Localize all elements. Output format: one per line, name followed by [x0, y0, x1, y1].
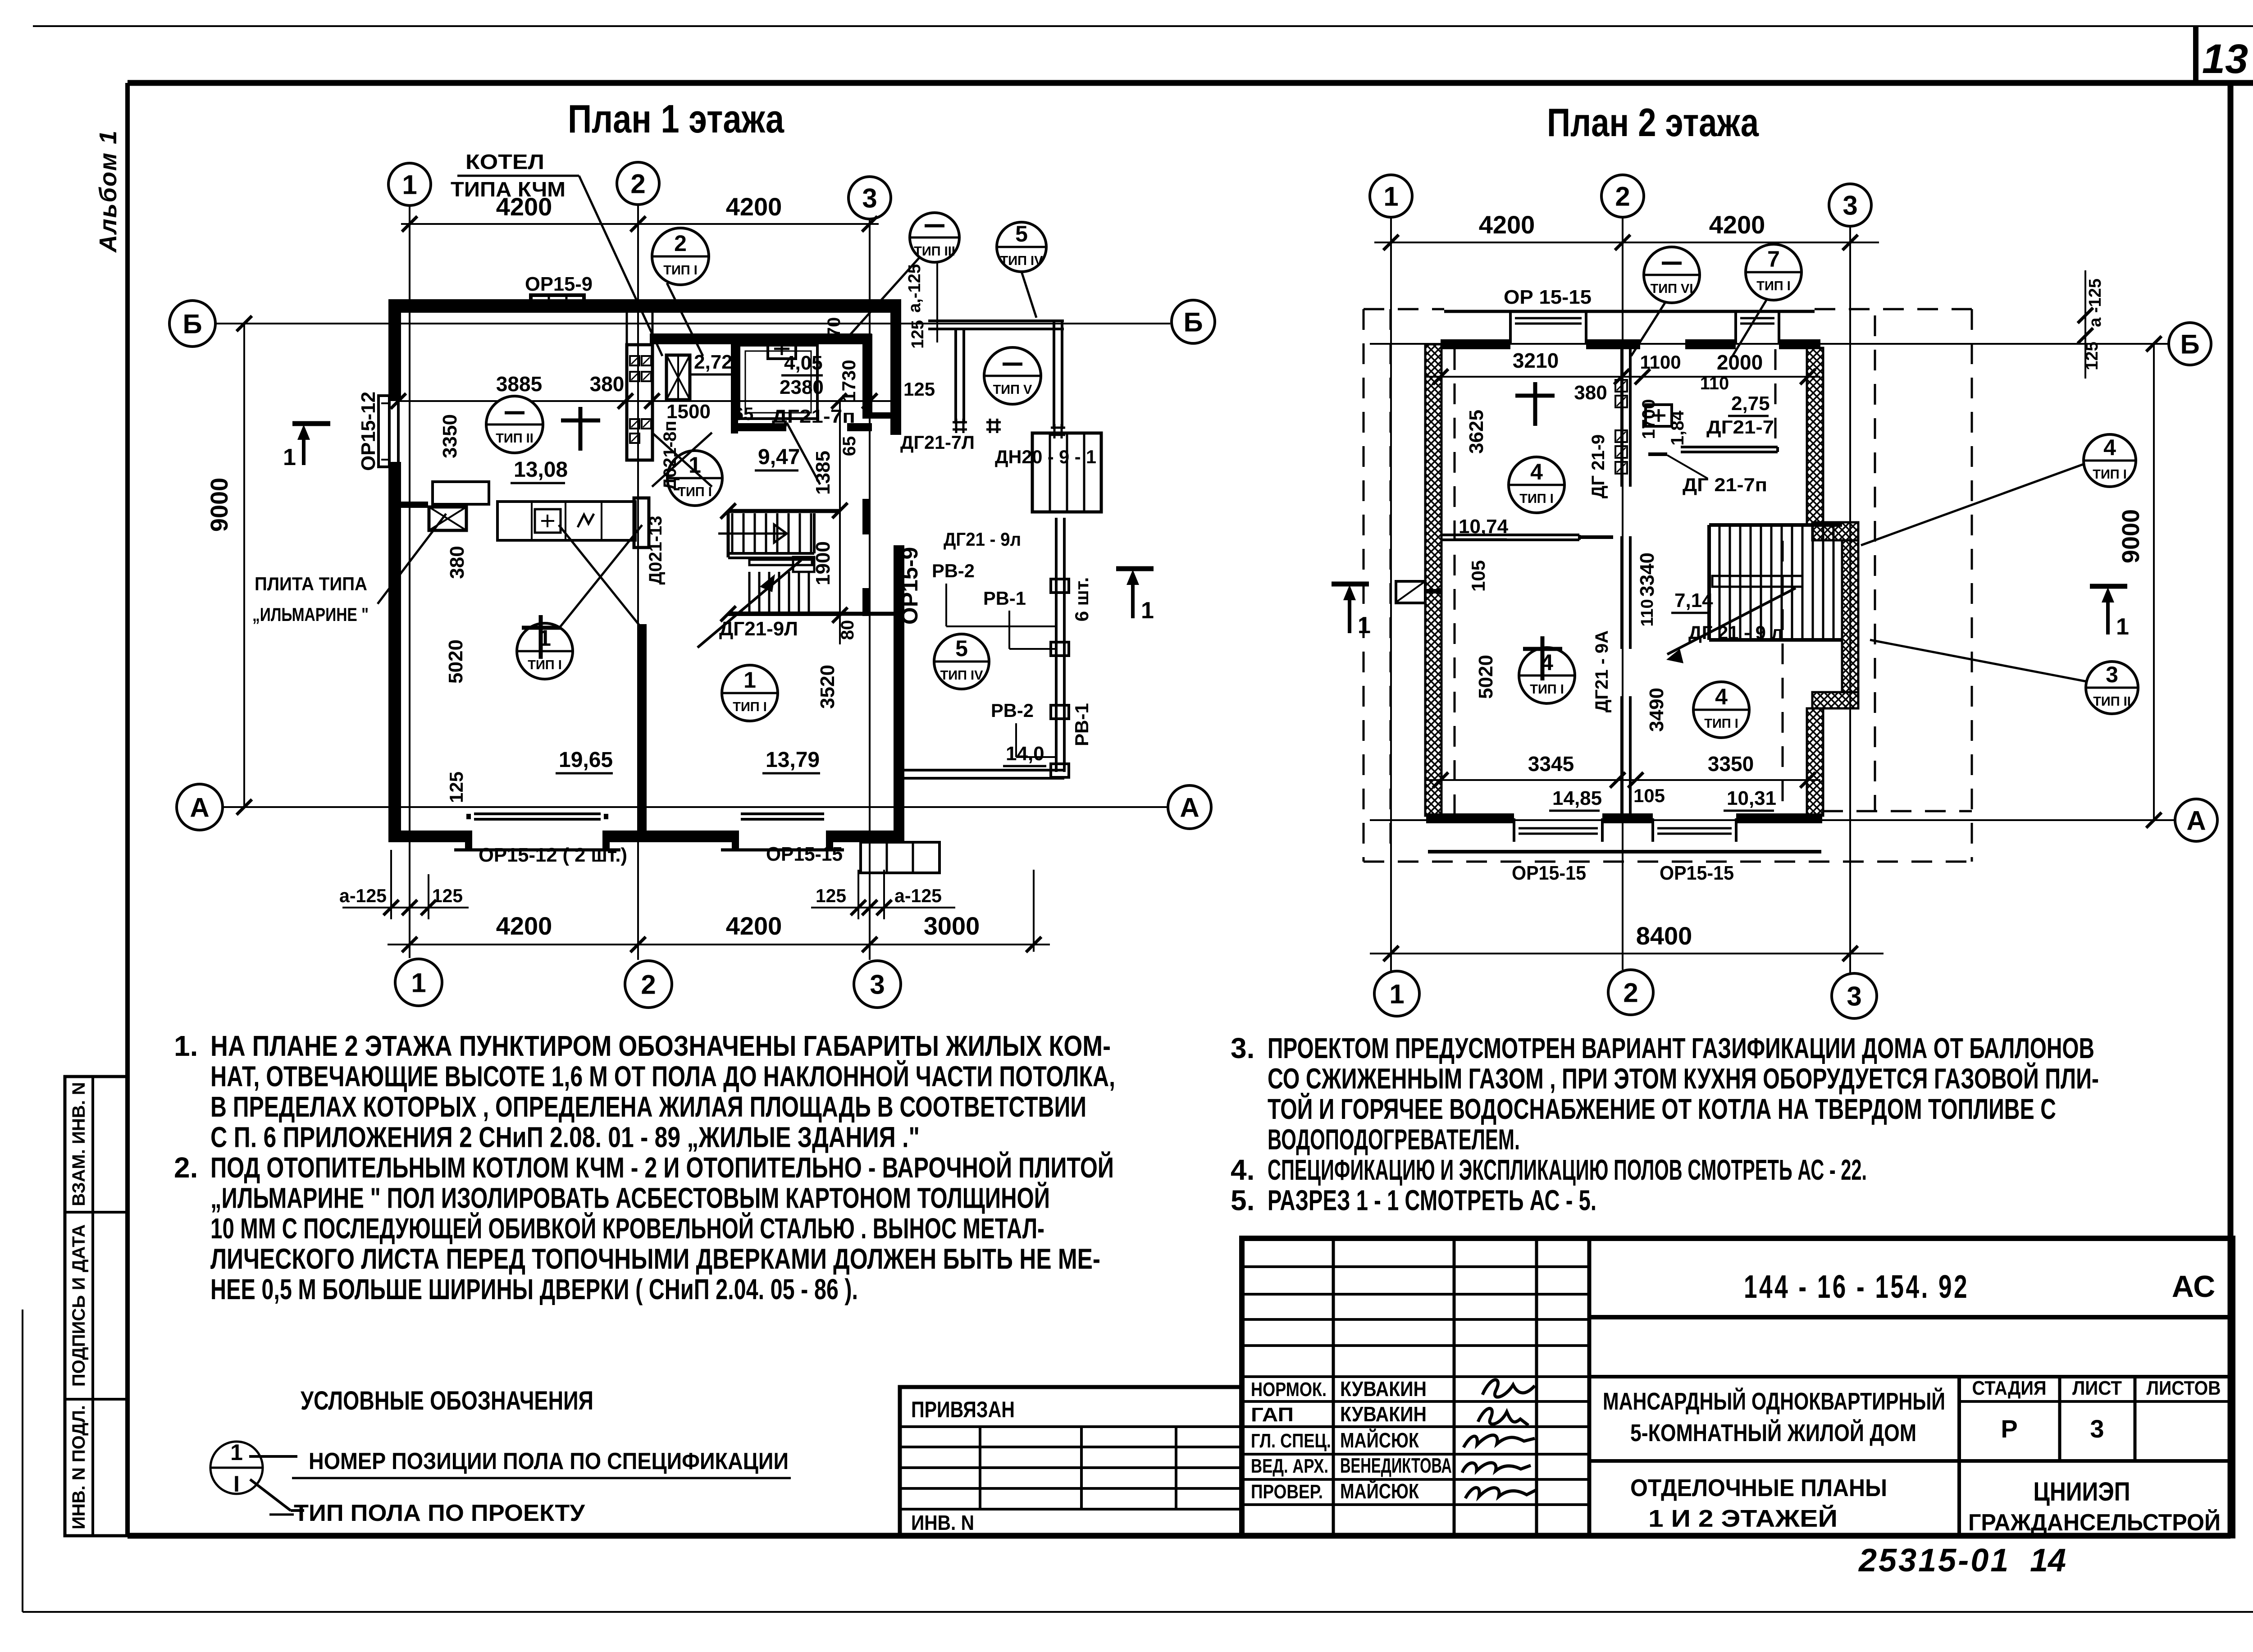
svg-text:5.: 5. — [1231, 1184, 1254, 1217]
svg-text:ДГ 21-7п: ДГ 21-7п — [1683, 474, 1767, 495]
svg-text:ДГ 21-9: ДГ 21-9 — [1588, 434, 1608, 498]
svg-text:ДГ21-7: ДГ21-7 — [1706, 416, 1774, 438]
stove box — [535, 509, 561, 533]
svg-text:65: 65 — [734, 404, 754, 424]
bathroom west wall — [731, 334, 738, 434]
porch left double — [954, 329, 957, 424]
plan1 interior dim line — [398, 400, 896, 402]
svg-text:„ИЛЬМАРИНЕ " ПОЛ ИЗОЛИРОВАТЬ: „ИЛЬМАРИНЕ " ПОЛ ИЗОЛИРОВАТЬ АСБЕСТОВЫМ … — [210, 1182, 1050, 1214]
sheet edge top — [33, 25, 2253, 27]
svg-text:3345: 3345 — [1528, 752, 1574, 776]
svg-text:СПЕЦИФИКАЦИЮ И ЭКСПЛИКАЦИЮ: СПЕЦИФИКАЦИЮ И ЭКСПЛИКАЦИЮ ПОЛОВ СМОТРЕТ… — [1268, 1154, 1867, 1186]
plan1 right wall lower — [894, 545, 904, 842]
svg-text:1: 1 — [1141, 598, 1154, 624]
veranda posts — [1051, 579, 1069, 593]
svg-text:3885: 3885 — [496, 372, 542, 396]
flue vent squares — [630, 356, 639, 365]
plan2 dashed outline left — [1363, 309, 1365, 862]
room 2 type circle — [722, 665, 778, 721]
svg-text:25315-01: 25315-01 — [1858, 1542, 2010, 1579]
svg-text:НОРМОК.: НОРМОК. — [1251, 1378, 1327, 1401]
svg-text:2: 2 — [1615, 182, 1630, 212]
svg-text:125: 125 — [903, 379, 935, 400]
svg-text:РВ-1: РВ-1 — [983, 588, 1026, 609]
bathroom door swing — [787, 423, 820, 484]
veranda type circle 5 — [934, 634, 989, 689]
svg-text:ДГ21-7п: ДГ21-7п — [772, 406, 855, 427]
page number box — [2193, 26, 2198, 83]
svg-text:а-125: а-125 — [339, 885, 387, 906]
svg-text:ГАП: ГАП — [1251, 1404, 1294, 1426]
left wall window OR15-12 — [388, 401, 391, 462]
plan2 right hatched wall lower — [1807, 708, 1823, 816]
flue partition wall — [627, 345, 652, 460]
plan1 entrance steps — [861, 842, 940, 873]
plan1 top exterior wall — [389, 299, 896, 313]
porch right double — [1053, 321, 1055, 429]
section mark 1 right — [1116, 566, 1154, 571]
svg-text:ТИП I: ТИП I — [1756, 279, 1791, 293]
veranda right double wall — [1055, 518, 1058, 772]
plan2 right vert dim 9000 — [2153, 344, 2155, 820]
svg-text:ОР15-15: ОР15-15 — [766, 843, 843, 865]
svg-text:3: 3 — [862, 183, 877, 214]
top window bay 1 — [1509, 311, 1512, 344]
svg-text:Б: Б — [182, 309, 202, 339]
svg-text:ДГ21 - 9л: ДГ21 - 9л — [944, 529, 1021, 550]
svg-text:3350: 3350 — [439, 414, 461, 458]
svg-text:ДГ21-9Л: ДГ21-9Л — [719, 618, 798, 640]
svg-text:13,79: 13,79 — [766, 748, 820, 772]
hall type circle — [667, 451, 722, 506]
svg-text:ВОДОПОДОГРЕВАТЕЛЕМ.: ВОДОПОДОГРЕВАТЕЛЕМ. — [1268, 1123, 1520, 1156]
svg-text:МАЙСЮК: МАЙСЮК — [1340, 1479, 1419, 1503]
svg-text:ТИП I: ТИП I — [1519, 492, 1554, 506]
svg-text:125: 125 — [446, 771, 467, 803]
svg-text:144 - 16 - 154. 92: 144 - 16 - 154. 92 — [1744, 1269, 1969, 1305]
svg-text:3350: 3350 — [1708, 752, 1754, 776]
svg-text:А: А — [190, 793, 209, 823]
bathtub — [739, 345, 817, 419]
plan2 axis A circle — [2175, 799, 2217, 841]
svg-text:ТИП I: ТИП I — [528, 658, 562, 672]
plan2 axis B line — [1370, 343, 2168, 345]
svg-text:7: 7 — [1767, 246, 1780, 272]
svg-text:РВ-2: РВ-2 — [991, 700, 1034, 721]
svg-text:105: 105 — [1468, 560, 1489, 592]
privyazan box — [900, 1387, 1242, 1536]
veranda bottom double — [902, 769, 1064, 771]
plan1 axis A line — [223, 806, 1168, 808]
section mark 1 left — [292, 421, 330, 426]
room partition lower — [638, 624, 647, 836]
svg-text:9000: 9000 — [2117, 509, 2144, 563]
plan1 right wall mid — [862, 499, 870, 534]
svg-text:ИНВ. N: ИНВ. N — [911, 1511, 974, 1534]
plan1 axis A circle left — [177, 784, 223, 830]
sheet edge bottom — [23, 1611, 2253, 1613]
svg-text:4200: 4200 — [496, 912, 552, 940]
svg-text:125: 125 — [908, 320, 927, 348]
plita wall stub — [393, 502, 428, 508]
svg-text:2000: 2000 — [1717, 351, 1763, 374]
plan2 top dim line — [1374, 242, 1879, 243]
svg-text:9,47: 9,47 — [758, 445, 800, 469]
svg-text:4: 4 — [1715, 684, 1728, 709]
svg-text:ДГ21-7Л: ДГ21-7Л — [900, 432, 975, 453]
svg-text:4200: 4200 — [1479, 210, 1535, 239]
plan2 stairs — [1709, 523, 1842, 527]
title block outer — [1242, 1238, 2233, 1536]
svg-text:ИНВ. N ПОДЛ.: ИНВ. N ПОДЛ. — [69, 1405, 89, 1529]
plan2 top leader circles — [1644, 247, 1700, 303]
svg-text:1: 1 — [743, 667, 756, 693]
svg-text:14: 14 — [2030, 1542, 2066, 1579]
plan1 axis circles top — [388, 163, 431, 205]
svg-text:5-КОМНАТНЫЙ ЖИЛОЙ ДОМ: 5-КОМНАТНЫЙ ЖИЛОЙ ДОМ — [1630, 1419, 1916, 1447]
plan2 axis B circle — [2169, 323, 2211, 365]
svg-text:СТАДИЯ: СТАДИЯ — [1972, 1377, 2047, 1399]
svg-text:3520: 3520 — [816, 665, 839, 709]
plan2 top wall segments — [1441, 339, 1510, 349]
svg-text:14,85: 14,85 — [1552, 787, 1602, 809]
svg-text:—ТИП ПОЛА ПО ПРОЕКТУ: —ТИП ПОЛА ПО ПРОЕКТУ — [269, 1500, 585, 1526]
svg-text:ТИП V: ТИП V — [993, 383, 1032, 397]
svg-text:ЦНИИЭП: ЦНИИЭП — [2034, 1477, 2130, 1506]
svg-text:4200: 4200 — [1709, 210, 1765, 239]
signatures — [1482, 1380, 1535, 1397]
svg-text:План 1 этажа: План 1 этажа — [568, 96, 784, 141]
plan1 axis verticals — [409, 205, 410, 958]
svg-text:А: А — [1180, 793, 1199, 823]
stair mid landing — [728, 552, 814, 555]
svg-text:3: 3 — [1847, 981, 1861, 1012]
plan2 plus box — [1646, 405, 1672, 426]
legend item 2 — [250, 1479, 291, 1511]
upper-left room cross — [1533, 382, 1537, 426]
svg-text:ОР15-9: ОР15-9 — [897, 547, 922, 625]
bathroom east wall — [862, 334, 872, 419]
svg-text:ТИП I: ТИП I — [2093, 467, 2127, 482]
svg-text:4: 4 — [1530, 459, 1543, 484]
svg-text:а -125: а -125 — [2086, 278, 2105, 327]
svg-text:Д021-13: Д021-13 — [646, 516, 666, 584]
svg-text:ТОЙ И ГОРЯЧЕЕ ВОДОСНАБЖЕНИЕ: ТОЙ И ГОРЯЧЕЕ ВОДОСНАБЖЕНИЕ ОТ КОТЛА НА … — [1268, 1092, 2056, 1125]
door swing D021-8p — [652, 433, 712, 487]
svg-text:УСЛОВНЫЕ ОБОЗНАЧЕНИЯ: УСЛОВНЫЕ ОБОЗНАЧЕНИЯ — [301, 1386, 593, 1415]
svg-text:5: 5 — [955, 636, 968, 661]
svg-text:ТИП II: ТИП II — [2093, 694, 2131, 709]
svg-text:ОР15-15: ОР15-15 — [1660, 862, 1734, 884]
bathroom north wall — [650, 333, 872, 344]
plan2 leader circles right — [2084, 434, 2136, 487]
svg-text:ГРАЖДАНСЕЛЬСТРОЙ: ГРАЖДАНСЕЛЬСТРОЙ — [1968, 1509, 2221, 1536]
svg-text:ТИП IV: ТИП IV — [940, 668, 984, 683]
door swing D021-13 — [559, 525, 642, 629]
svg-text:ПРОВЕР.: ПРОВЕР. — [1251, 1481, 1323, 1503]
plan2 lower dim line — [1426, 779, 1820, 781]
plan2 axis circles top — [1370, 175, 1412, 217]
svg-text:3000: 3000 — [924, 912, 980, 940]
svg-text:2,72: 2,72 — [694, 351, 733, 373]
svg-text:4200: 4200 — [726, 192, 782, 221]
plan1 axis B line — [215, 323, 1170, 324]
svg-text:ТИП I: ТИП I — [1530, 682, 1564, 697]
svg-text:ТИП I: ТИП I — [733, 700, 767, 714]
svg-text:Р: Р — [2001, 1415, 2017, 1443]
stamp column boxes — [65, 1077, 128, 1536]
svg-text:3490: 3490 — [1646, 688, 1668, 732]
svg-text:КУВАКИН: КУВАКИН — [1340, 1377, 1427, 1401]
svg-text:РАЗРЕЗ 1 - 1 СМОТРЕТЬ АС -: РАЗРЕЗ 1 - 1 СМОТРЕТЬ АС - 5. — [1268, 1184, 1596, 1217]
svg-text:СО СЖИЖЕННЫМ ГАЗОМ , ПРИ ЭТ: СО СЖИЖЕННЫМ ГАЗОМ , ПРИ ЭТОМ КУХНЯ ОБОР… — [1268, 1062, 2099, 1095]
bottom window bay 1 — [1513, 818, 1515, 842]
svg-text:ДГ21 - 9А: ДГ21 - 9А — [1592, 630, 1612, 712]
title block right structure — [1589, 1315, 2233, 1319]
stair arrow plan2 — [1667, 588, 1796, 654]
porch top double line — [928, 319, 1064, 322]
svg-text:4: 4 — [2103, 435, 2116, 460]
svg-text:План 2 этажа: План 2 этажа — [1547, 100, 1759, 145]
bottom window bay 1 — [465, 831, 472, 850]
svg-text:6 шт.: 6 шт. — [1071, 577, 1092, 622]
svg-text:2: 2 — [1623, 978, 1638, 1008]
svg-text:Б: Б — [2180, 329, 2199, 360]
svg-text:8400: 8400 — [1636, 922, 1692, 950]
svg-text:1: 1 — [1358, 612, 1371, 639]
svg-text:4.: 4. — [1231, 1154, 1254, 1186]
svg-text:3340: 3340 — [1636, 552, 1658, 597]
svg-text:НА ПЛАНЕ 2 ЭТАЖА ПУНКТИРОМ: НА ПЛАНЕ 2 ЭТАЖА ПУНКТИРОМ ОБОЗНАЧЕНЫ ГА… — [210, 1030, 1111, 1062]
svg-text:3: 3 — [2090, 1415, 2104, 1443]
stair arrow — [698, 560, 801, 648]
svg-text:1385: 1385 — [812, 451, 834, 495]
svg-text:ЛИСТ: ЛИСТ — [2072, 1377, 2122, 1399]
svg-text:19,65: 19,65 — [559, 748, 613, 772]
plan1 leader type circles top — [652, 228, 709, 285]
svg-text:ТИП I: ТИП I — [1704, 716, 1738, 731]
plan2 left wall lug — [1396, 581, 1425, 603]
title block left rows — [1242, 1265, 1589, 1268]
plan2 bottom axis circles — [1374, 971, 1419, 1016]
lower rooms crosses — [1523, 647, 1562, 651]
sink mark — [578, 514, 594, 527]
svg-text:3210: 3210 — [1513, 349, 1559, 372]
svg-text:ТИП IV: ТИП IV — [1000, 254, 1044, 268]
plan2 axis verticals — [1390, 217, 1392, 971]
plan1 bottom axis circles — [395, 959, 442, 1006]
legend item 1 — [249, 1455, 297, 1458]
svg-text:1730: 1730 — [838, 360, 859, 402]
svg-text:110: 110 — [1638, 599, 1657, 626]
plan1 top dim line 4200+4200 — [401, 223, 879, 225]
kitchen cross symbol — [561, 419, 600, 423]
svg-text:9000: 9000 — [206, 478, 233, 532]
plan2 dashed bottom — [1364, 861, 1972, 863]
svg-text:МАНСАРДНЫЙ ОДНОКВАРТИРНЫЙ: МАНСАРДНЫЙ ОДНОКВАРТИРНЫЙ — [1603, 1387, 1945, 1415]
plan1 axis A circle right — [1168, 785, 1211, 829]
svg-text:105: 105 — [1633, 785, 1665, 806]
svg-text:КУВАКИН: КУВАКИН — [1340, 1402, 1427, 1426]
svg-text:Б: Б — [1183, 307, 1203, 338]
svg-text:3: 3 — [1843, 191, 1857, 221]
stair up-arrow flight1 — [718, 533, 785, 535]
svg-text:1500: 1500 — [666, 401, 711, 423]
plan2 lower-left room circle — [1519, 648, 1575, 703]
plan2 horiz partition right apt — [1681, 446, 1778, 448]
plan2 inner dashed gabarit lines — [1454, 349, 1456, 816]
svg-text:ГЛ. СПЕЦ.: ГЛ. СПЕЦ. — [1251, 1430, 1331, 1452]
svg-text:4,05: 4,05 — [784, 352, 823, 374]
bottom window bay 2 — [1651, 818, 1654, 842]
plan1 bottom exterior wall segments — [389, 831, 469, 842]
svg-text:125: 125 — [432, 885, 463, 906]
svg-text:1 И 2 ЭТАЖЕЙ: 1 И 2 ЭТАЖЕЙ — [1648, 1505, 1838, 1532]
svg-text:ТИП I: ТИП I — [678, 485, 712, 499]
svg-text:380: 380 — [590, 372, 625, 396]
legend circle — [210, 1442, 263, 1494]
svg-text:РВ-1: РВ-1 — [1071, 703, 1092, 746]
svg-text:4200: 4200 — [726, 912, 782, 940]
svg-text:13,08: 13,08 — [514, 458, 568, 482]
counter end cabinet — [634, 498, 649, 548]
svg-text:Альбом 1: Альбом 1 — [95, 130, 122, 253]
plan1 axis B circle right — [1172, 300, 1215, 343]
svg-text:3: 3 — [2106, 662, 2118, 687]
svg-text:65: 65 — [839, 436, 859, 456]
svg-text:70: 70 — [824, 317, 844, 338]
bottom window bay 2 — [732, 831, 739, 850]
plan2 section mark left — [1332, 582, 1369, 587]
svg-text:МАЙСЮК: МАЙСЮК — [1340, 1428, 1419, 1452]
sheet edge left (partial) — [22, 1310, 23, 1612]
kitchen type circle — [486, 396, 543, 453]
svg-text:3: 3 — [870, 970, 885, 1000]
plan1 main bottom dim line — [388, 944, 1050, 945]
svg-text:КОТЕЛ: КОТЕЛ — [465, 150, 544, 173]
svg-text:ВЗАМ. ИНВ. N: ВЗАМ. ИНВ. N — [69, 1082, 89, 1206]
plan2 8400 dim — [1370, 953, 1884, 954]
svg-text:5020: 5020 — [1475, 655, 1497, 699]
svg-text:1,84: 1,84 — [1668, 410, 1687, 446]
plan2 bottom outer line — [1428, 850, 1821, 853]
svg-text:ОР 15-15: ОР 15-15 — [1504, 286, 1592, 308]
door leaf marks — [1648, 452, 1667, 456]
plan1 chimney/window bump top — [531, 295, 584, 310]
svg-text:I: I — [233, 1471, 240, 1497]
plan2 upper-left room circle — [1509, 457, 1564, 513]
svg-text:ОТДЕЛОЧНЫЕ ПЛАНЫ: ОТДЕЛОЧНЫЕ ПЛАНЫ — [1630, 1474, 1887, 1501]
svg-text:ПЛИТА ТИПА: ПЛИТА ТИПА — [255, 573, 367, 594]
title block left verticals — [1332, 1238, 1335, 1536]
svg-text:2.: 2. — [174, 1151, 198, 1184]
svg-text:ПРИВЯЗАН: ПРИВЯЗАН — [911, 1397, 1015, 1422]
sill marks porch — [953, 421, 967, 424]
svg-text:ОР15-9: ОР15-9 — [525, 273, 593, 295]
svg-text:„ИЛЬМАРИНЕ ": „ИЛЬМАРИНЕ " — [252, 604, 369, 625]
svg-text:НЕЕ 0,5 М БОЛЬШЕ ШИРИНЫ Д: НЕЕ 0,5 М БОЛЬШЕ ШИРИНЫ ДВЕРКИ ( СНиП 2.… — [210, 1273, 858, 1305]
svg-text:125: 125 — [816, 885, 846, 906]
main frame border — [128, 80, 2253, 86]
svg-text:НОМЕР ПОЗИЦИИ ПОЛА ПО СПЕЦ: НОМЕР ПОЗИЦИИ ПОЛА ПО СПЕЦИФИКАЦИИ — [309, 1448, 789, 1474]
svg-text:2: 2 — [674, 231, 687, 256]
svg-text:1.: 1. — [174, 1030, 198, 1062]
svg-text:7,14: 7,14 — [1674, 589, 1713, 612]
plan2 central partition — [1620, 349, 1623, 487]
svg-text:А: А — [2186, 806, 2206, 836]
svg-text:3625: 3625 — [1465, 410, 1487, 454]
plan1 left exterior wall segments — [388, 299, 401, 401]
svg-text:РВ-2: РВ-2 — [932, 560, 975, 581]
svg-text:АС: АС — [2172, 1269, 2216, 1304]
svg-text:ВЕНЕДИКТОВА: ВЕНЕДИКТОВА — [1340, 1454, 1452, 1477]
plan2 vent squares — [1615, 380, 1627, 392]
plan1 left vert dim 9000 — [243, 324, 245, 807]
svg-text:3.: 3. — [1231, 1032, 1254, 1064]
svg-text:2: 2 — [630, 169, 645, 199]
svg-text:ДН20 - 9 - 1: ДН20 - 9 - 1 — [995, 446, 1096, 467]
svg-text:10,31: 10,31 — [1727, 787, 1776, 809]
svg-text:14,0: 14,0 — [1006, 743, 1044, 765]
svg-text:ПРОЕКТОМ ПРЕДУСМОТРЕН ВАРИАН: ПРОЕКТОМ ПРЕДУСМОТРЕН ВАРИАНТ ГАЗИФИКАЦИ… — [1268, 1032, 2094, 1064]
kotel leader — [579, 176, 662, 356]
svg-text:ТИП III: ТИП III — [914, 244, 955, 259]
svg-text:380: 380 — [446, 546, 468, 579]
vert dim line at stairs — [839, 401, 841, 644]
svg-text:1: 1 — [1389, 979, 1404, 1009]
svg-text:ТИПА КЧМ: ТИПА КЧМ — [451, 178, 566, 201]
plan2 stair bay hatched walls — [1812, 522, 1858, 540]
svg-text:1: 1 — [230, 1440, 243, 1465]
kitchen counter row — [497, 502, 635, 540]
svg-text:ОР15-12 ( 2 шт.): ОР15-12 ( 2 шт.) — [479, 844, 627, 866]
svg-text:1: 1 — [411, 968, 426, 998]
svg-text:2: 2 — [641, 970, 656, 1000]
radiator leader lines — [945, 584, 947, 626]
svg-text:ТИП I: ТИП I — [663, 263, 698, 278]
plan2 dashed top — [1364, 308, 1444, 310]
plan2 horiz partition left apt — [1441, 534, 1579, 536]
plan2 top outer line — [1444, 310, 1815, 313]
svg-text:ВЕД. АРХ.: ВЕД. АРХ. — [1251, 1455, 1328, 1477]
svg-text:13: 13 — [2202, 36, 2248, 82]
door DN20-9-1 block — [1032, 433, 1101, 512]
plita block — [433, 482, 489, 504]
stairs plan1 — [728, 509, 841, 513]
svg-text:В ПРЕДЕЛАХ КОТОРЫХ , ОПРЕДЕЛ: В ПРЕДЕЛАХ КОТОРЫХ , ОПРЕДЕЛЕНА ЖИЛАЯ ПЛ… — [210, 1091, 1086, 1123]
svg-text:1: 1 — [402, 170, 417, 200]
top window bay 2 — [1734, 311, 1737, 344]
svg-text:1: 1 — [1383, 182, 1398, 212]
plan2 lower-right room circle — [1693, 682, 1749, 738]
svg-text:НАТ, ОТВЕЧАЮЩИЕ ВЫСОТЕ 1,6 М: НАТ, ОТВЕЧАЮЩИЕ ВЫСОТЕ 1,6 М ОТ ПОЛА ДО … — [210, 1060, 1115, 1093]
svg-text:ТИП II: ТИП II — [496, 431, 534, 446]
svg-text:ТИП VI: ТИП VI — [1651, 282, 1693, 296]
svg-text:ПОД ОТОПИТЕЛЬНЫМ КОТЛОМ КЧМ: ПОД ОТОПИТЕЛЬНЫМ КОТЛОМ КЧМ - 2 И ОТОПИТ… — [210, 1151, 1114, 1184]
plan2 interior dim line upper — [1426, 376, 1820, 378]
svg-text:2,75: 2,75 — [1731, 392, 1770, 415]
svg-text:10 ММ С ПОСЛЕДУЮЩЕЙ ОБИВКОЙ: 10 ММ С ПОСЛЕДУЮЩЕЙ ОБИВКОЙ КРОВЕЛЬНОЙ С… — [210, 1212, 1044, 1245]
svg-text:1700: 1700 — [1639, 399, 1659, 439]
plan1 right wall upper — [890, 299, 901, 435]
svg-text:1: 1 — [2116, 614, 2129, 640]
svg-text:1100: 1100 — [1640, 351, 1681, 373]
window OR15-9 on right wall — [894, 561, 897, 622]
plan2 right hatched wall upper — [1807, 348, 1823, 525]
svg-text:ОР15-15: ОР15-15 — [1512, 862, 1586, 884]
boiler vent box with X — [666, 355, 690, 400]
svg-text:1: 1 — [283, 444, 296, 470]
